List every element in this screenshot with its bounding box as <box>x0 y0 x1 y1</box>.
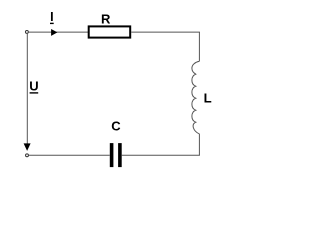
resistor R <box>89 26 131 37</box>
wire left: top terminal down to voltage arrow <box>26 34 28 144</box>
inductor L coil <box>192 61 200 134</box>
wire top: terminal to resistor <box>29 31 89 33</box>
wire bottom right: corner to capacitor <box>122 154 200 156</box>
wire right bottom: coil to corner <box>198 134 200 156</box>
capacitor C plates <box>110 143 114 167</box>
wire bottom left: capacitor to terminal <box>29 154 110 156</box>
wire top: resistor to corner <box>131 31 200 33</box>
voltage arrow U (down) <box>24 143 31 151</box>
node terminal bottom-left <box>26 154 29 157</box>
current arrow I <box>51 29 57 36</box>
wire right top: corner down to coil <box>198 32 200 61</box>
svg-text:R: R <box>101 12 111 27</box>
svg-text:I: I <box>50 10 53 24</box>
svg-text:U: U <box>29 79 38 94</box>
node terminal top-left <box>25 30 28 33</box>
svg-text:L: L <box>204 91 212 106</box>
svg-text:C: C <box>111 119 121 134</box>
